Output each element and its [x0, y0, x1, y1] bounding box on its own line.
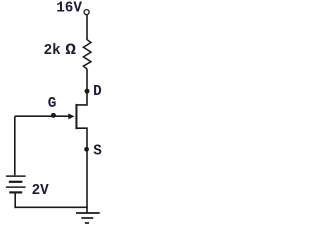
node D (junction dot)	[85, 89, 90, 94]
label S	[93, 143, 102, 159]
label 2kΩ value	[44, 41, 76, 59]
wire battery to bottom rail	[14, 193, 16, 208]
wire resistor to node D	[86, 69, 88, 91]
node G (junction dot)	[51, 113, 56, 118]
label G	[48, 96, 57, 112]
svg-text:D: D	[93, 84, 102, 100]
ground bar 1	[76, 212, 100, 214]
wire gate: left rail to gate arrow	[15, 115, 70, 117]
label 2V battery value	[32, 183, 50, 199]
transistor Q1 gate arrow	[68, 113, 74, 119]
svg-text:2k: 2k	[44, 43, 62, 59]
wire source to ground rail	[86, 149, 88, 214]
wire source: transistor source to node S	[77, 128, 88, 149]
svg-text:16V: 16V	[56, 1, 82, 17]
battery V1 plate + long	[6, 175, 26, 177]
svg-text:G: G	[48, 96, 57, 112]
battery V1 plate - short	[9, 181, 23, 183]
svg-text:Ω: Ω	[65, 41, 76, 58]
ground bar 3	[85, 222, 89, 224]
resistor R1 2kΩ	[83, 40, 91, 69]
wire bottom rail	[14, 206, 87, 208]
ground bar 2	[81, 217, 93, 219]
terminal 16V (open circle)	[84, 10, 89, 15]
battery V1 plate - short 2	[9, 191, 22, 193]
wire terminal to resistor R1	[86, 15, 88, 40]
wire drain: node D to transistor drain	[77, 91, 88, 105]
transistor Q1 N-JFET channel bar	[75, 104, 77, 129]
svg-text:2V: 2V	[32, 183, 50, 199]
label D	[93, 84, 102, 100]
wire left rail: gate down to battery	[14, 116, 16, 175]
battery V1 plate + long 2	[6, 186, 26, 188]
svg-text:S: S	[93, 143, 102, 159]
label 16V supply	[56, 1, 82, 17]
node S (junction dot)	[84, 147, 89, 152]
